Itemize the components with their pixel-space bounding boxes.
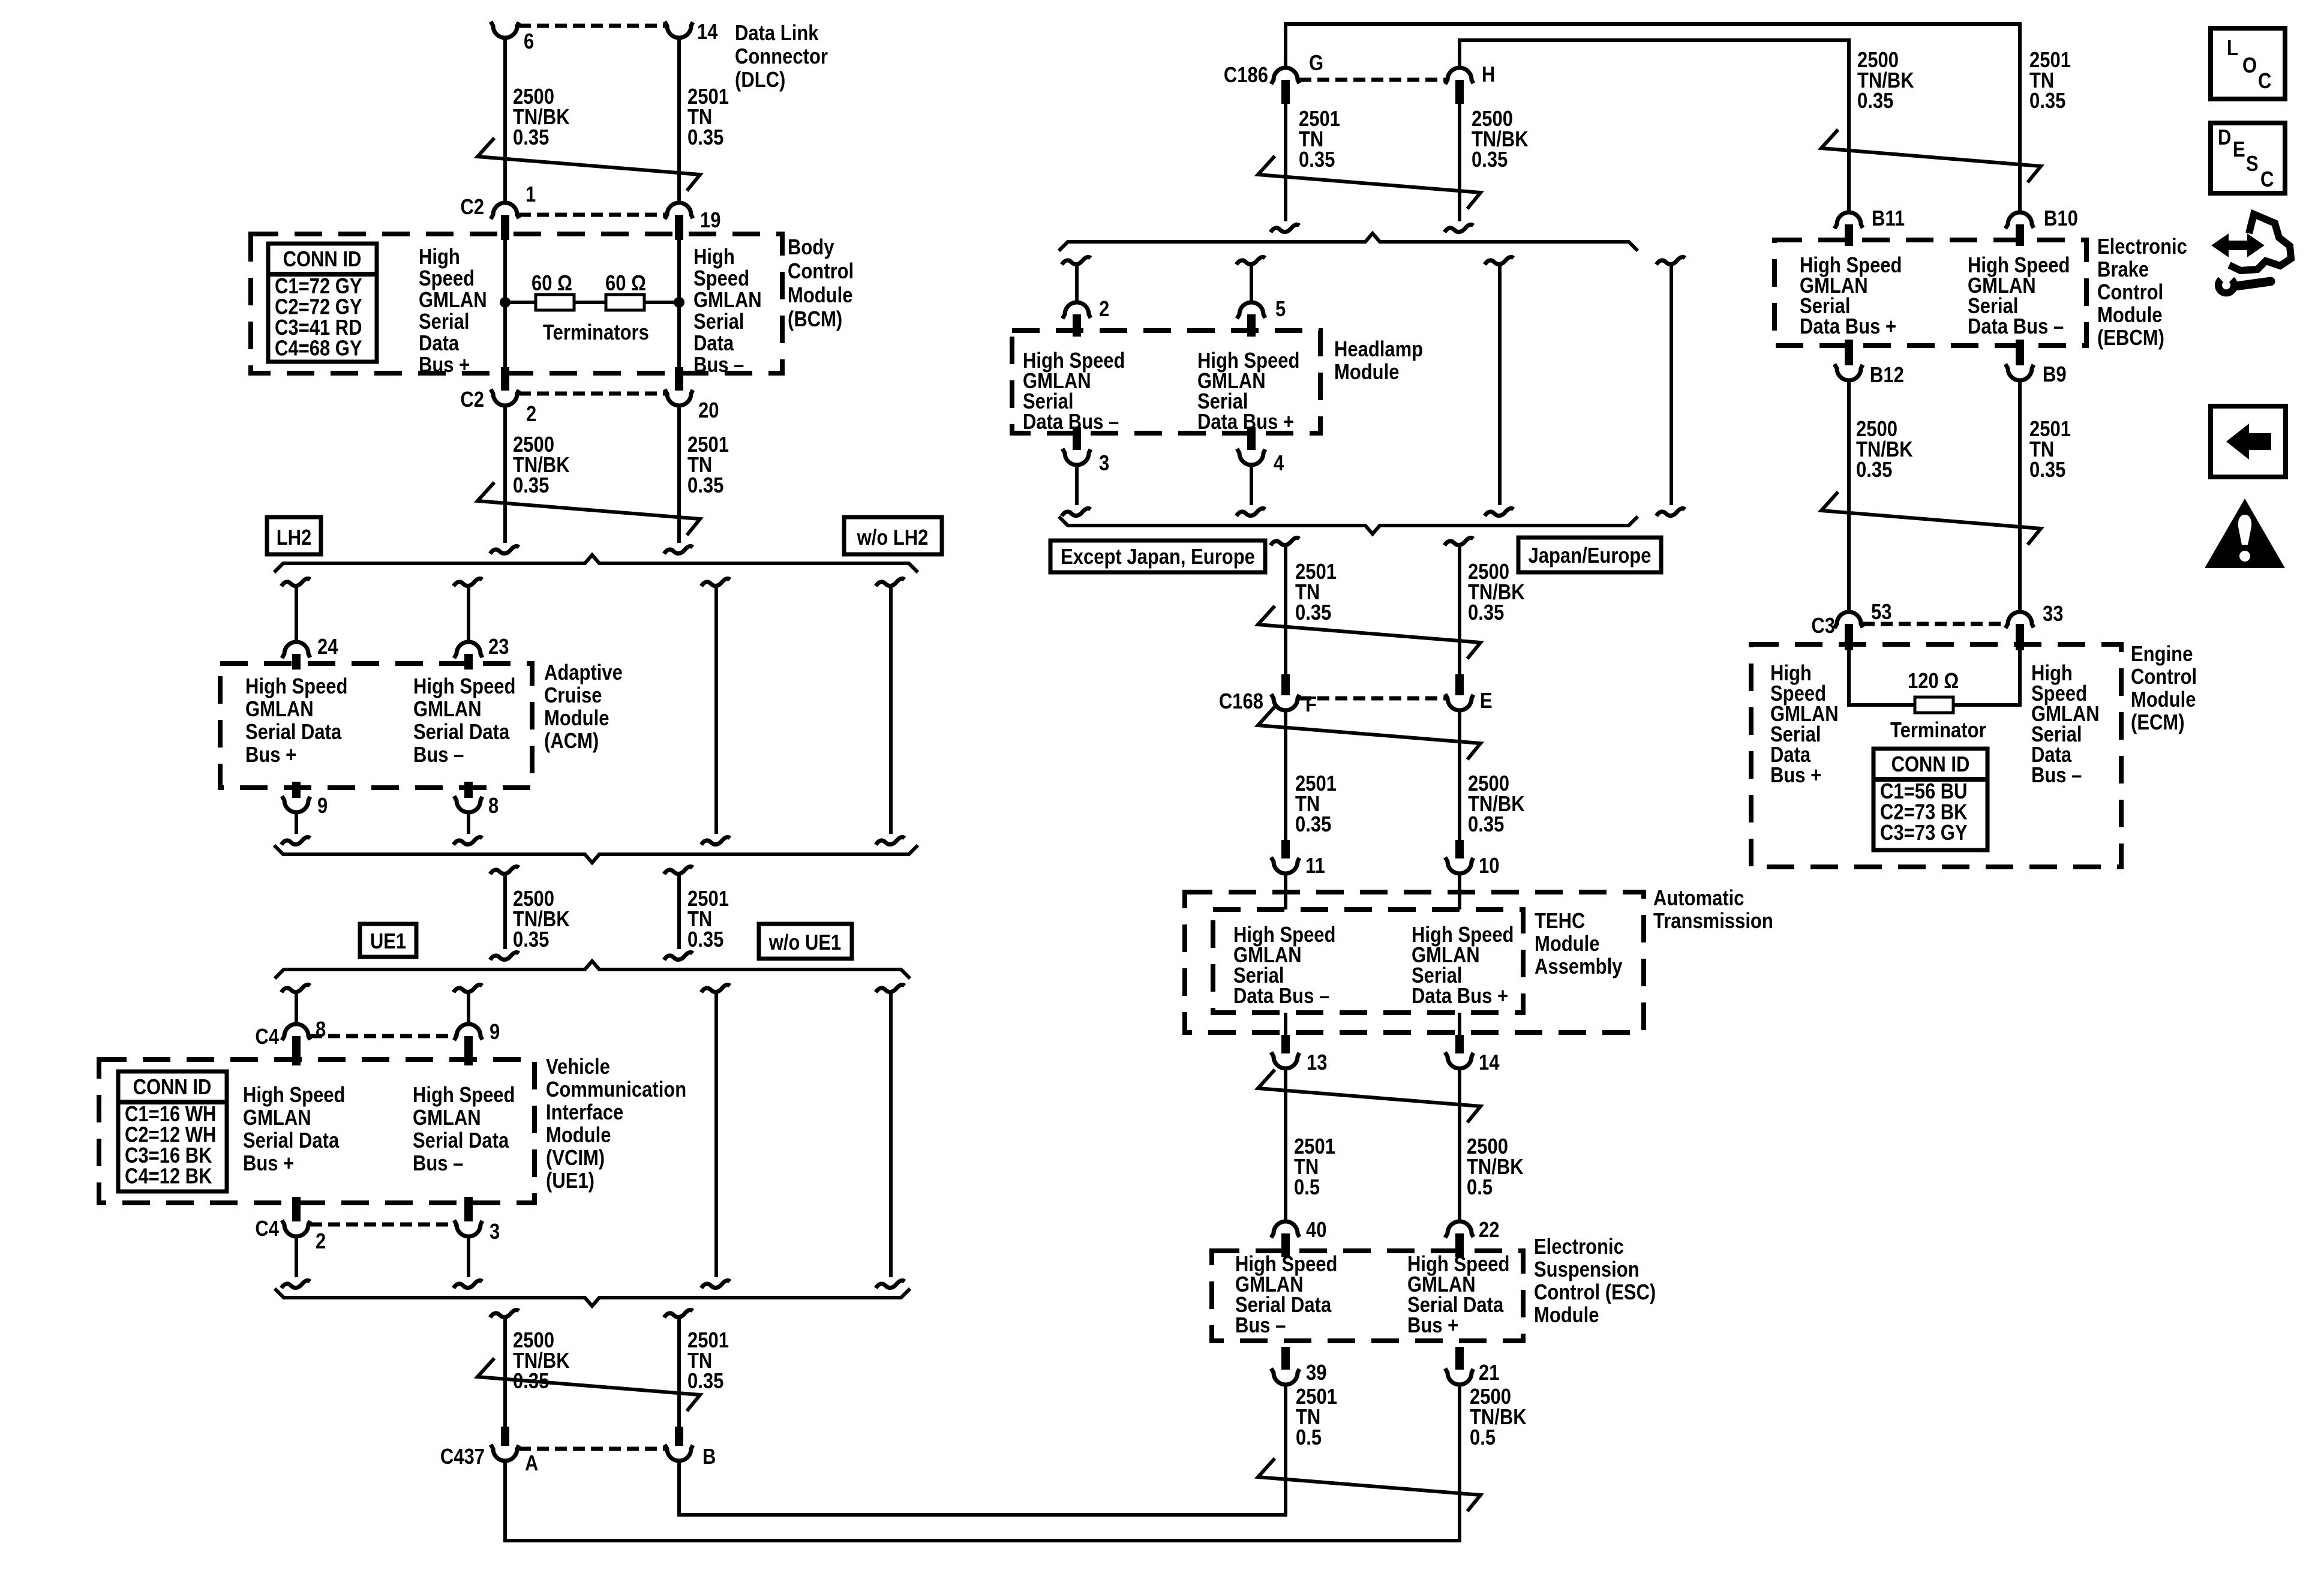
svg-text:GMLAN: GMLAN <box>243 1106 311 1130</box>
connector DLC pin 6 <box>491 22 519 38</box>
svg-text:A: A <box>525 1452 538 1476</box>
svg-text:Serial Data: Serial Data <box>413 721 510 745</box>
svg-text:Bus +: Bus + <box>245 743 296 767</box>
module Headlamp dashed box <box>1012 331 1320 433</box>
wire pin 11 into TEHC <box>1284 873 1287 909</box>
svg-text:C3: C3 <box>1811 614 1835 638</box>
connector C2 bottom dashed body line <box>519 392 665 396</box>
wire VCIM pin 3 down <box>467 1236 470 1277</box>
wire BCM internal bus + <box>503 240 507 367</box>
connector C186 dashed body line <box>1299 78 1446 82</box>
connector EBCM pin B12 <box>1845 340 1853 365</box>
label box LH2 <box>267 517 321 554</box>
svg-text:Japan/Europe: Japan/Europe <box>1529 544 1652 568</box>
svg-text:Serial Data: Serial Data <box>245 721 342 745</box>
bus brace bottom of UE1 section <box>275 1289 910 1306</box>
crossover break symbol <box>478 1358 700 1411</box>
wire w/o UE1 passthrough left <box>701 984 730 992</box>
wire terminator row <box>505 301 536 304</box>
svg-text:Serial Data: Serial Data <box>243 1129 340 1153</box>
connector C168 pin E <box>1455 674 1464 695</box>
svg-text:Electronic: Electronic <box>1534 1235 1624 1259</box>
svg-text:Electronic: Electronic <box>2097 235 2187 259</box>
wire 2500 DLC to BCM <box>503 37 507 203</box>
svg-text:E: E <box>1480 689 1493 713</box>
wire headlamp pin 4 down <box>1250 464 1253 505</box>
resistor 60 ohm right <box>606 295 644 310</box>
svg-text:0.5: 0.5 <box>1467 1176 1493 1200</box>
wire passthrough Japan left <box>1485 257 1514 265</box>
connector TEHC pin 13 <box>1281 1035 1290 1053</box>
svg-text:Cruise: Cruise <box>544 684 602 708</box>
svg-text:Serial: Serial <box>693 310 744 334</box>
svg-text:22: 22 <box>1479 1218 1499 1242</box>
svg-text:9: 9 <box>490 1020 500 1044</box>
wire 2500 between braces <box>490 866 519 874</box>
svg-text:Terminator: Terminator <box>1890 719 1986 743</box>
connector C4 pin 8 <box>282 1024 310 1040</box>
node junction terminator right <box>674 297 684 308</box>
connector TEHC pin 11 <box>1281 840 1290 858</box>
svg-text:(UE1): (UE1) <box>546 1169 594 1193</box>
connector C437 dashed body line <box>519 1447 665 1451</box>
svg-text:C4=68 GY: C4=68 GY <box>275 337 362 361</box>
wire 2501 B9 to ECM 33 <box>2018 380 2022 613</box>
svg-text:33: 33 <box>2043 602 2063 626</box>
svg-text:Interface: Interface <box>546 1101 623 1125</box>
svg-text:GMLAN: GMLAN <box>413 698 482 722</box>
wire 2501 TEHC to ESC pin 40 <box>1284 1068 1287 1222</box>
svg-text:CONN ID: CONN ID <box>1891 753 1970 777</box>
svg-text:8: 8 <box>316 1018 326 1042</box>
connector headlamp pin 4 <box>1247 427 1256 450</box>
svg-text:Data Bus –: Data Bus – <box>1968 315 2064 339</box>
wire to headlamp pin 2 <box>1062 257 1091 265</box>
svg-text:Control (ESC): Control (ESC) <box>1534 1281 1656 1305</box>
svg-text:GMLAN: GMLAN <box>413 1106 481 1130</box>
connector DLC pin 14 <box>665 22 693 38</box>
svg-text:High: High <box>693 245 735 269</box>
connector EBCM pin B9 <box>2016 340 2024 365</box>
svg-text:0.35: 0.35 <box>687 1370 723 1394</box>
svg-text:O: O <box>2242 54 2257 78</box>
wire 2500 C168 to TEHC pin 10 <box>1458 710 1461 840</box>
svg-text:Engine: Engine <box>2131 643 2193 667</box>
svg-text:(BCM): (BCM) <box>788 308 842 332</box>
crossover break symbol <box>1258 707 1481 760</box>
svg-text:0.35: 0.35 <box>513 474 549 498</box>
svg-text:High Speed: High Speed <box>245 675 347 699</box>
svg-text:0.35: 0.35 <box>687 928 723 952</box>
BCM CONN ID table <box>268 244 377 362</box>
svg-text:53: 53 <box>1871 601 1891 625</box>
resistor 120 ohm <box>1915 697 1953 713</box>
bus brace top of LH2 section <box>274 555 918 572</box>
wire pin 10 into TEHC <box>1458 873 1461 909</box>
svg-text:14: 14 <box>697 20 718 44</box>
svg-text:Assembly: Assembly <box>1535 955 1623 979</box>
svg-text:Data: Data <box>419 332 459 356</box>
svg-text:60 Ω: 60 Ω <box>605 272 646 296</box>
svg-text:Speed: Speed <box>693 267 749 291</box>
icon warning triangle <box>2205 499 2285 568</box>
svg-text:0.5: 0.5 <box>1294 1176 1320 1200</box>
bus brace bottom of LH2 section <box>274 845 918 863</box>
svg-text:21: 21 <box>1479 1361 1499 1385</box>
svg-text:40: 40 <box>1306 1218 1326 1242</box>
svg-text:5: 5 <box>1275 298 1286 322</box>
svg-text:Bus –: Bus – <box>2031 764 2082 788</box>
svg-text:19: 19 <box>700 209 720 233</box>
svg-text:C: C <box>2260 168 2274 192</box>
svg-text:Automatic: Automatic <box>1653 887 1744 911</box>
svg-text:Adaptive: Adaptive <box>544 661 623 685</box>
svg-text:Module: Module <box>544 707 609 731</box>
label box Except Japan, Europe <box>1050 541 1265 572</box>
connector C437 pin A <box>501 1427 509 1446</box>
connector C2 pin 19 <box>665 203 693 219</box>
svg-text:GMLAN: GMLAN <box>245 698 314 722</box>
connector ESC pin 21 <box>1455 1347 1464 1370</box>
connector ECM C3 pin 53 <box>1834 612 1863 628</box>
svg-text:39: 39 <box>1306 1361 1326 1385</box>
svg-text:Bus +: Bus + <box>1407 1314 1458 1338</box>
connector C4 dashed body line <box>310 1034 455 1038</box>
icon wrench with arrows <box>2212 214 2291 293</box>
svg-text:(ECM): (ECM) <box>2131 711 2185 735</box>
module ECM dashed box <box>1751 644 2121 867</box>
svg-text:B12: B12 <box>1870 364 1904 388</box>
wire 2500 from H to B11 top run <box>1460 40 1849 213</box>
icon back arrow box <box>2211 406 2286 477</box>
svg-text:24: 24 <box>317 635 338 659</box>
svg-text:C4: C4 <box>255 1217 279 1241</box>
crossover break symbol <box>1258 606 1481 659</box>
svg-text:TEHC: TEHC <box>1535 909 1585 933</box>
svg-text:L: L <box>2227 37 2238 61</box>
svg-text:6: 6 <box>524 30 534 54</box>
svg-text:Module: Module <box>546 1124 611 1148</box>
wire w/o UE1 passthrough right <box>876 984 905 992</box>
svg-text:(DLC): (DLC) <box>735 68 785 92</box>
crossover break symbol <box>1821 492 2041 545</box>
wire LH2 to ACM pin 23 <box>454 578 482 586</box>
wire VCIM pin 2 down <box>295 1236 298 1277</box>
wire 2501 between braces <box>664 866 693 874</box>
svg-text:Headlamp: Headlamp <box>1334 338 1423 362</box>
wire 2501 brace to C168 F <box>1271 538 1299 545</box>
bus brace top of UE1 section <box>275 961 910 978</box>
resistor 60 ohm left <box>536 295 574 310</box>
svg-text:Data Bus –: Data Bus – <box>1023 410 1119 434</box>
svg-text:13: 13 <box>1307 1051 1327 1075</box>
svg-text:C2: C2 <box>460 196 484 220</box>
svg-text:B9: B9 <box>2043 363 2067 387</box>
svg-text:Bus +: Bus + <box>419 353 470 377</box>
wire ECM internal terminator <box>1849 650 1915 705</box>
svg-text:C2: C2 <box>460 388 484 412</box>
svg-text:0.35: 0.35 <box>1472 148 1508 172</box>
crossover break symbol <box>1821 130 2041 182</box>
connector C168 dashed body line <box>1299 697 1446 701</box>
svg-text:8: 8 <box>488 794 499 818</box>
connector C4 pin 9 <box>454 1024 482 1040</box>
wire B to ESC pin 39 bottom run <box>679 1384 1286 1515</box>
wire 2501 BCM to LH2 brace <box>677 405 681 543</box>
wire 2501 DLC to BCM <box>677 37 681 203</box>
connector ECM C3 pin 33 <box>2005 612 2034 628</box>
connector headlamp pin 3 <box>1073 427 1081 450</box>
connector ACM pin 24 <box>282 642 310 658</box>
wire w/o LH2 passthrough left <box>701 578 730 586</box>
svg-text:GMLAN: GMLAN <box>419 289 487 313</box>
svg-text:0.35: 0.35 <box>1468 813 1504 837</box>
svg-text:High: High <box>419 245 460 269</box>
connector C4 bottom dashed body line <box>310 1223 455 1227</box>
bus brace bottom of headlamp section <box>1059 517 1638 534</box>
wire TEHC pin 13 out <box>1284 1013 1287 1035</box>
svg-text:High Speed: High Speed <box>413 675 515 699</box>
svg-text:2: 2 <box>1099 298 1109 322</box>
svg-text:0.35: 0.35 <box>2029 458 2065 482</box>
svg-text:Data Bus –: Data Bus – <box>1233 984 1329 1008</box>
connector ESC pin 22 <box>1445 1221 1473 1238</box>
wire passthrough Japan right <box>1656 257 1685 265</box>
connector C4 pin 3 <box>464 1197 473 1221</box>
wire BCM internal bus - <box>677 240 681 367</box>
connector C437 pin B <box>675 1427 683 1446</box>
svg-text:B10: B10 <box>2044 207 2078 231</box>
connector DLC dashed body line <box>519 24 665 28</box>
svg-text:E: E <box>2233 138 2245 162</box>
label box w/o LH2 <box>844 517 942 554</box>
svg-text:10: 10 <box>1479 854 1499 878</box>
svg-text:Data Bus +: Data Bus + <box>1800 315 1896 339</box>
crossover break symbol <box>1258 1070 1481 1122</box>
svg-text:C186: C186 <box>1224 64 1268 88</box>
svg-text:0.5: 0.5 <box>1470 1426 1496 1450</box>
icon DESC box <box>2211 123 2285 193</box>
svg-text:B: B <box>702 1445 716 1469</box>
svg-text:3: 3 <box>490 1220 500 1244</box>
wire ACM pin 9 down <box>295 812 298 834</box>
VCIM CONN ID table <box>118 1071 227 1191</box>
wire 2500 to C437 <box>490 1310 519 1317</box>
svg-text:0.35: 0.35 <box>1295 813 1331 837</box>
svg-text:Connector: Connector <box>735 45 828 69</box>
wire LH2 to ACM pin 24 <box>281 578 310 586</box>
connector ACM pin 9 <box>292 782 301 798</box>
connector C2 dashed body line <box>519 213 665 217</box>
svg-text:D: D <box>2218 126 2231 150</box>
svg-text:C437: C437 <box>440 1445 485 1469</box>
icon LOC box <box>2211 28 2285 99</box>
svg-text:Serial Data: Serial Data <box>413 1129 509 1153</box>
svg-text:Bus –: Bus – <box>413 743 464 767</box>
crossover break symbol <box>1258 1458 1481 1511</box>
bus brace top of headlamp section <box>1059 233 1638 251</box>
connector headlamp pin 5 <box>1237 302 1265 319</box>
svg-text:LH2: LH2 <box>277 526 312 550</box>
svg-text:14: 14 <box>1479 1051 1500 1075</box>
connector C186 pin H <box>1445 68 1473 84</box>
svg-text:CONN ID: CONN ID <box>283 248 362 272</box>
svg-text:0.35: 0.35 <box>1857 89 1893 113</box>
svg-text:C3=73 GY: C3=73 GY <box>1880 821 1968 845</box>
svg-text:w/o LH2: w/o LH2 <box>857 526 929 550</box>
connector C2 pin 2 <box>501 367 509 391</box>
svg-text:0.35: 0.35 <box>687 474 723 498</box>
svg-text:1: 1 <box>526 183 536 207</box>
svg-text:UE1: UE1 <box>370 930 406 954</box>
svg-text:Speed: Speed <box>419 267 475 291</box>
svg-text:Body: Body <box>788 236 834 260</box>
svg-text:Bus –: Bus – <box>413 1152 463 1176</box>
connector headlamp pin 2 <box>1062 302 1091 319</box>
module EBCM dashed box <box>1774 240 2086 346</box>
svg-text:High Speed: High Speed <box>243 1083 345 1107</box>
svg-text:F: F <box>1305 693 1317 717</box>
crossover break symbol <box>478 138 700 191</box>
svg-text:20: 20 <box>698 399 719 423</box>
wire ACM pin 8 down <box>467 812 470 834</box>
wire 2501 to C437 <box>664 1310 693 1317</box>
svg-text:Communication: Communication <box>546 1078 686 1102</box>
svg-text:0.35: 0.35 <box>1299 148 1335 172</box>
svg-text:0.5: 0.5 <box>1296 1426 1322 1450</box>
connector ACM pin 23 <box>454 642 482 658</box>
svg-text:(ACM): (ACM) <box>544 730 599 754</box>
svg-text:B11: B11 <box>1872 207 1905 231</box>
connector EBCM pin B10 <box>2005 212 2034 229</box>
wire 2500 BCM to LH2 brace <box>503 405 507 543</box>
svg-text:Bus –: Bus – <box>693 353 744 377</box>
svg-text:9: 9 <box>317 794 328 818</box>
svg-text:Module: Module <box>788 284 852 308</box>
label box UE1 <box>360 924 416 957</box>
ECM CONN ID table <box>1873 749 1987 850</box>
module BCM dashed box <box>251 234 782 373</box>
connector C2 pin 1 <box>491 203 519 219</box>
svg-text:0.35: 0.35 <box>513 126 549 150</box>
svg-text:0.35: 0.35 <box>1468 601 1504 625</box>
wire w/o LH2 passthrough right <box>876 578 905 586</box>
svg-text:Control: Control <box>2131 665 2197 689</box>
svg-text:C: C <box>2258 70 2271 94</box>
svg-text:Bus +: Bus + <box>243 1152 294 1176</box>
svg-text:CONN ID: CONN ID <box>133 1076 212 1100</box>
svg-text:S: S <box>2246 152 2259 176</box>
svg-text:(EBCM): (EBCM) <box>2097 326 2164 350</box>
svg-text:Data Link: Data Link <box>735 22 819 46</box>
svg-text:4: 4 <box>1274 452 1284 476</box>
svg-text:0.35: 0.35 <box>1856 458 1892 482</box>
svg-text:C168: C168 <box>1219 690 1263 714</box>
svg-text:Bus –: Bus – <box>1235 1314 1286 1338</box>
svg-text:Data Bus +: Data Bus + <box>1197 410 1294 434</box>
svg-text:Serial: Serial <box>419 310 469 334</box>
svg-text:Module: Module <box>1535 932 1599 956</box>
svg-text:Control: Control <box>788 260 854 284</box>
connector TEHC pin 14 <box>1455 1035 1464 1053</box>
svg-text:Bus +: Bus + <box>1770 764 1821 788</box>
wire 2501 from G to B10 top run <box>1286 24 2020 213</box>
svg-text:Control: Control <box>2097 281 2163 305</box>
svg-text:H: H <box>1482 63 1495 87</box>
svg-text:0.35: 0.35 <box>687 126 723 150</box>
svg-text:C4=12 BK: C4=12 BK <box>125 1164 212 1188</box>
svg-text:60 Ω: 60 Ω <box>532 272 572 296</box>
wire 2500 TEHC to ESC pin 22 <box>1458 1068 1461 1222</box>
svg-text:Module: Module <box>2131 688 2196 712</box>
connector C168 pin F <box>1281 674 1290 695</box>
module Automatic Transmission dashed box <box>1185 892 1644 1032</box>
svg-text:Data: Data <box>693 332 734 356</box>
svg-text:Module: Module <box>1534 1304 1599 1328</box>
connector C2 pin 20 <box>675 367 683 391</box>
wire 2500 C186 down <box>1458 104 1461 221</box>
connector ESC pin 39 <box>1281 1347 1290 1370</box>
svg-text:23: 23 <box>488 635 509 659</box>
wire A to ESC pin 21 bottom run <box>505 1384 1460 1541</box>
connector TEHC pin 10 <box>1455 840 1464 858</box>
wire 2501 C186 down <box>1284 104 1287 221</box>
label box w/o UE1 <box>759 924 852 959</box>
svg-text:(VCIM): (VCIM) <box>546 1146 605 1170</box>
svg-text:11: 11 <box>1305 854 1325 878</box>
wire 2500 B12 to ECM 53 <box>1847 380 1851 613</box>
connector EBCM pin B11 <box>1834 212 1863 229</box>
svg-text:w/o UE1: w/o UE1 <box>768 931 841 955</box>
svg-text:2: 2 <box>316 1230 326 1254</box>
svg-text:0.35: 0.35 <box>2029 89 2065 113</box>
svg-text:Vehicle: Vehicle <box>546 1055 610 1079</box>
svg-text:0.35: 0.35 <box>513 928 549 952</box>
svg-text:Transmission: Transmission <box>1653 909 1773 933</box>
module VCIM dashed box <box>99 1059 535 1203</box>
module TEHC dashed box <box>1213 909 1523 1013</box>
connector C3 dashed body line <box>1863 622 2006 626</box>
crossover break symbol <box>478 482 700 535</box>
svg-text:3: 3 <box>1099 452 1109 476</box>
wire UE1 to VCIM pin C4-8 <box>281 984 310 992</box>
label box Japan/Europe <box>1518 538 1661 572</box>
wire 2500 brace to C168 E <box>1445 538 1473 545</box>
svg-text:Brake: Brake <box>2097 258 2149 282</box>
svg-text:0.35: 0.35 <box>1295 601 1331 625</box>
connector C186 pin G <box>1271 68 1299 84</box>
module ESC dashed box <box>1212 1251 1523 1341</box>
svg-text:G: G <box>1309 52 1323 76</box>
node junction terminator left <box>500 297 511 308</box>
wire TEHC pin 14 out <box>1458 1013 1461 1035</box>
svg-text:High Speed: High Speed <box>413 1083 515 1107</box>
svg-text:Except Japan, Europe: Except Japan, Europe <box>1061 545 1255 569</box>
svg-text:Module: Module <box>1334 361 1399 385</box>
wire headlamp pin 3 down <box>1075 464 1079 505</box>
wire 2501 C168 to TEHC pin 11 <box>1284 710 1287 840</box>
connector ACM pin 8 <box>464 782 473 798</box>
svg-text:Suspension: Suspension <box>1534 1258 1640 1282</box>
svg-text:2: 2 <box>526 403 536 427</box>
module ACM dashed box <box>220 664 532 788</box>
svg-text:GMLAN: GMLAN <box>693 289 762 313</box>
wire to headlamp pin 5 <box>1236 257 1265 265</box>
svg-text:Module: Module <box>2097 304 2162 328</box>
svg-text:Terminators: Terminators <box>543 321 649 345</box>
wire UE1 to VCIM pin 9 <box>454 984 482 992</box>
svg-text:Data Bus +: Data Bus + <box>1412 984 1508 1008</box>
